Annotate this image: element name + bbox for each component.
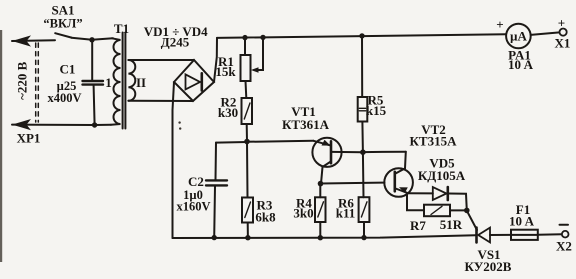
svg-text:X1: X1	[555, 36, 571, 51]
svg-text:10 A: 10 A	[509, 214, 535, 229]
minus sign X2	[560, 224, 569, 226]
svg-text:II: II	[136, 75, 146, 90]
bridge rectifier VD1-VD4 diamond	[174, 60, 214, 101]
svg-text:“ВКЛ”: “ВКЛ”	[43, 17, 82, 31]
wire bridge minus down	[173, 82, 175, 238]
svg-text:x400V: x400V	[47, 91, 81, 105]
meter PA1	[506, 24, 531, 49]
resistor R4 3k0	[319, 184, 321, 198]
node VT1 base / latch	[360, 149, 366, 155]
svg-text:R7: R7	[410, 218, 426, 233]
svg-text:~220 В: ~220 В	[15, 61, 30, 100]
wire node to C2	[216, 141, 247, 144]
svg-text:6k8: 6k8	[255, 210, 276, 225]
transistor VT1 KT361A	[312, 138, 341, 167]
svg-text:15k: 15k	[215, 64, 236, 79]
resistor R7 51R	[407, 193, 424, 210]
svg-text:3k0: 3k0	[293, 206, 313, 221]
transformer T1 secondary winding	[128, 60, 135, 101]
svg-text:КТ361А: КТ361А	[282, 117, 330, 132]
wire F1 to X2	[538, 233, 562, 236]
svg-text:ХР1: ХР1	[17, 131, 41, 146]
svg-text:k15: k15	[366, 103, 387, 118]
terminal X2	[562, 231, 569, 238]
svg-text:+: +	[558, 16, 565, 31]
node R1 top	[242, 35, 247, 40]
svg-text:C1: C1	[60, 62, 76, 77]
svg-text:µA: µA	[510, 29, 527, 44]
wire mains top	[12, 39, 55, 42]
svg-text:T1: T1	[114, 21, 129, 36]
wire secondary bottom	[128, 100, 193, 102]
node C1 bottom	[92, 122, 97, 127]
resistor R6 k11	[359, 197, 370, 222]
resistor R5 k15	[361, 36, 363, 97]
svg-text:x160V: x160V	[176, 200, 210, 214]
resistor R3 6k8	[242, 198, 253, 223]
wire PA1 to X1	[531, 32, 560, 35]
node R4 bottom	[318, 235, 323, 240]
wire	[72, 38, 114, 40]
node wiper top	[260, 35, 265, 40]
wire node down to R3	[246, 142, 249, 198]
svg-text:КУ202В: КУ202В	[465, 259, 512, 274]
node VT1 collector	[318, 181, 324, 187]
switch SA1	[55, 33, 71, 37]
svg-text:51R: 51R	[440, 217, 463, 232]
node R6 bottom	[361, 235, 366, 240]
svg-text:X2: X2	[556, 239, 572, 254]
svg-text:SA1: SA1	[51, 3, 74, 18]
plug arrow bottom	[12, 119, 31, 130]
thyristor VS1	[475, 228, 478, 243]
wire bridge plus up	[214, 38, 217, 82]
node gate	[464, 208, 470, 214]
transformer T1 core	[123, 33, 126, 129]
bridge diode symbol	[186, 74, 201, 89]
fuse F1 10A	[511, 230, 538, 240]
terminal X1	[560, 28, 567, 35]
capacitor C1	[91, 40, 93, 80]
svg-text:Д245: Д245	[161, 34, 190, 49]
node C1 top	[89, 37, 94, 42]
capacitor C2	[215, 143, 218, 180]
node divider	[244, 139, 250, 145]
diode VD5 KD105A	[433, 187, 447, 200]
wire VT1 collector to VT2 base	[321, 182, 385, 185]
svg-text:КД105А: КД105А	[418, 168, 466, 183]
wire top rail	[217, 34, 506, 38]
node R3 bottom	[245, 235, 250, 240]
transformer T1 primary winding	[111, 38, 121, 125]
wire secondary top	[128, 59, 194, 61]
transistor VT2 KT315A	[384, 168, 413, 197]
svg-text:10 A: 10 A	[508, 57, 534, 72]
resistor R2 k30	[242, 98, 253, 124]
svg-text:КТ315А: КТ315А	[410, 134, 458, 149]
wire VT2 emitter to VD5	[407, 192, 433, 194]
plug arrow top	[12, 35, 31, 46]
wire mains bottom	[12, 124, 111, 126]
svg-text:C2: C2	[188, 174, 204, 189]
plug XP1 dashed line	[36, 43, 39, 122]
node R5 top	[359, 33, 364, 38]
svg-text:1: 1	[105, 75, 112, 90]
svg-text:+: +	[496, 17, 503, 32]
wire VS1 to F1	[490, 234, 511, 236]
svg-text:k30: k30	[218, 105, 238, 120]
thyristor VS1 KU202V gate wire	[467, 211, 477, 230]
wire node to VT1 emitter	[247, 141, 314, 142]
resistor R1 15k potentiometer	[244, 38, 246, 55]
node C2 bottom	[212, 235, 217, 240]
svg-text:k11: k11	[336, 206, 356, 221]
wire bottom rail	[173, 235, 476, 238]
